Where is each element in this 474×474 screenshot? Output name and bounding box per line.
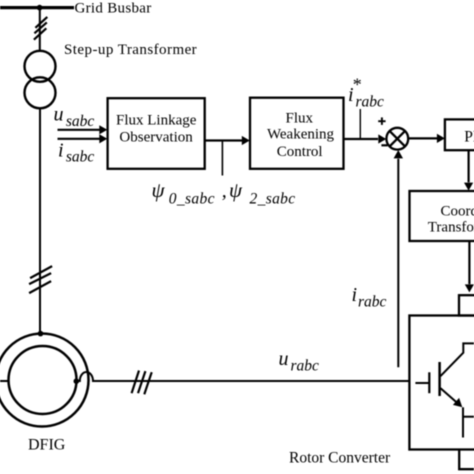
three-phase marks rotor xyxy=(132,371,152,395)
svg-text:ψ: ψ xyxy=(152,178,166,202)
grid busbar xyxy=(0,6,74,9)
svg-text:u: u xyxy=(54,104,64,126)
feedback wire i_rabc xyxy=(394,150,403,367)
svg-text:2_sabc: 2_sabc xyxy=(250,191,296,208)
signal arrow u_sabc xyxy=(58,125,108,134)
svg-text:u: u xyxy=(279,348,289,370)
svg-text:Step-up Transformer: Step-up Transformer xyxy=(64,42,197,58)
wire u_rabc rotor with hop xyxy=(76,372,409,381)
block U4 Coordinate Transformation (cut at edge) xyxy=(410,191,474,241)
DFIG rotor circle xyxy=(9,346,77,414)
svg-text:0_sabc: 0_sabc xyxy=(169,191,215,208)
rotor lead left stub xyxy=(0,380,9,382)
DFIG stator circle xyxy=(0,334,89,427)
wire FWC to summer xyxy=(344,134,387,143)
svg-text:Control: Control xyxy=(277,144,323,160)
block U6 Rotor Converter (cut at edge) xyxy=(409,316,474,450)
three-phase marks stator top xyxy=(34,17,47,40)
svg-text:rabc: rabc xyxy=(356,94,385,111)
transistor Q1 gate bar xyxy=(428,372,430,393)
label u_sabc xyxy=(54,104,95,130)
svg-text:Weakening: Weakening xyxy=(267,126,335,142)
label psi0_sabc, psi2_sabc xyxy=(152,178,296,208)
three-phase marks stator bottom xyxy=(29,266,52,293)
junction dot stator xyxy=(38,331,44,337)
tap wire psi xyxy=(221,141,223,176)
block U5 PWM (cut at edge) xyxy=(459,295,474,315)
svg-text:Grid Busbar: Grid Busbar xyxy=(75,1,152,17)
wire FLO to FWC xyxy=(205,136,250,145)
summing junction S1 xyxy=(386,128,408,150)
tap wire i*rabc xyxy=(359,109,361,139)
signal arrow i_sabc xyxy=(58,134,108,143)
svg-text:Observation: Observation xyxy=(119,129,193,145)
svg-text:PI: PI xyxy=(464,129,474,146)
label i_sabc xyxy=(58,139,94,165)
svg-text:*: * xyxy=(353,75,362,95)
svg-text:sabc: sabc xyxy=(66,113,95,130)
wire PI to coordinate transform xyxy=(464,150,473,190)
svg-text:rabc: rabc xyxy=(291,358,320,375)
junction dot rotor lead xyxy=(74,378,80,384)
emitter rail stub xyxy=(463,416,474,418)
transistor Q1 collector xyxy=(440,343,474,376)
wire transformer to DFIG stator xyxy=(39,108,41,333)
label i_rabc feedback xyxy=(352,284,387,311)
svg-text:sabc: sabc xyxy=(66,149,95,166)
svg-text:Flux Linkage: Flux Linkage xyxy=(116,113,197,129)
svg-text:rabc: rabc xyxy=(358,294,387,311)
block U1 Flux Linkage Observation xyxy=(108,98,205,169)
wire busbar to transformer xyxy=(39,8,41,51)
svg-text:ψ: ψ xyxy=(229,178,243,202)
svg-text:Coordinate: Coordinate xyxy=(441,204,474,220)
block U3 PI regulator (cut at edge) xyxy=(445,119,474,150)
svg-text:Transformation: Transformation xyxy=(428,219,474,235)
svg-text:Flux: Flux xyxy=(286,111,314,127)
block U2 Flux Weakening Control xyxy=(250,98,344,169)
block grid-side (cut at corner) xyxy=(459,449,474,469)
label u_rabc xyxy=(279,348,320,375)
step-up transformer T1 xyxy=(25,51,56,109)
transistor Q1 emitter post xyxy=(462,407,464,437)
svg-text:Rotor Converter: Rotor Converter xyxy=(289,450,391,467)
transistor Q1 emitter with arrow xyxy=(440,388,462,407)
svg-text:i: i xyxy=(58,139,64,161)
svg-text:i: i xyxy=(352,284,358,306)
wire summer to PI xyxy=(408,134,445,143)
transistor Q1 body bar xyxy=(438,362,441,396)
wire coordinate transform to PWM xyxy=(465,241,474,292)
svg-text:DFIG: DFIG xyxy=(28,437,66,454)
svg-text:,: , xyxy=(222,180,227,202)
junction dot busbar xyxy=(37,5,43,11)
transistor Q1 gate lead xyxy=(415,382,429,384)
minus sign xyxy=(381,144,387,146)
label i*_rabc reference xyxy=(348,75,384,111)
plus sign xyxy=(378,117,385,125)
